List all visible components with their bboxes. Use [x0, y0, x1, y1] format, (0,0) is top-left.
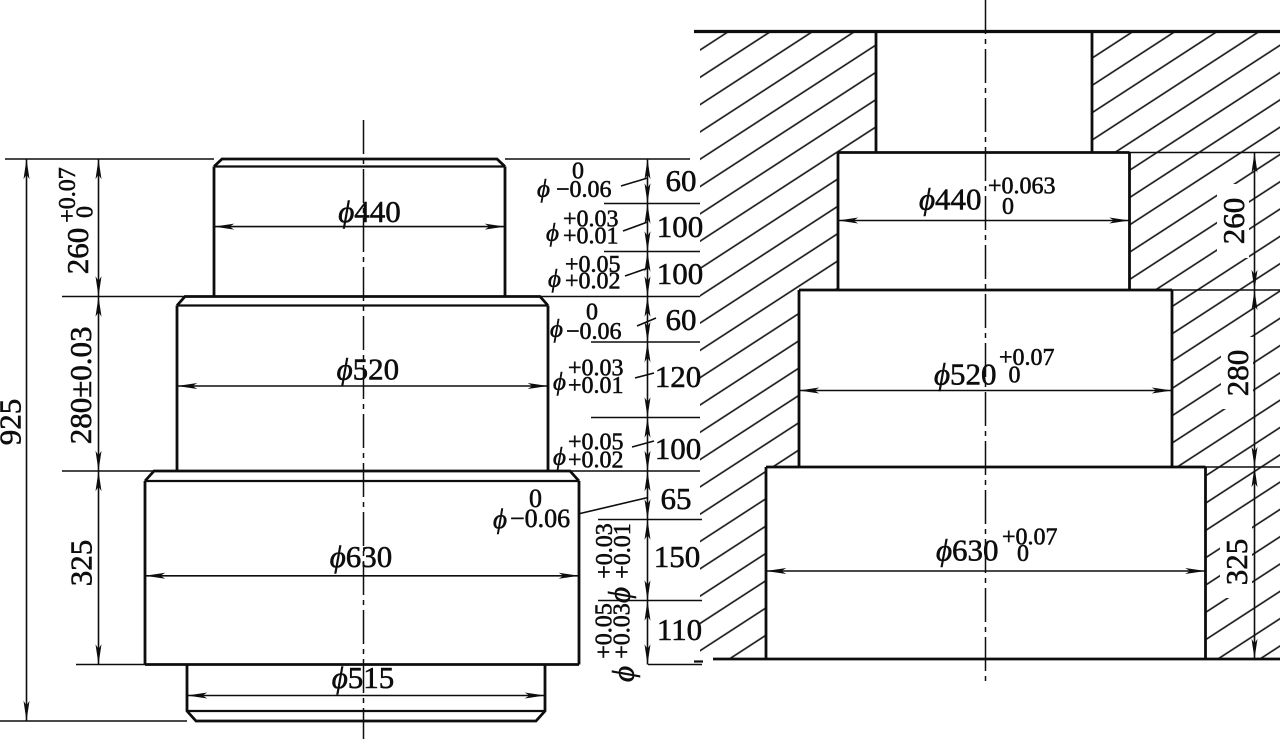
extension line at step1 shoulder to right column [1130, 152, 1280, 154]
svg-text:280±0.03: 280±0.03 [63, 327, 98, 445]
punch bottom spigot (phi515) outline with bottom chamfers [187, 665, 545, 722]
dimension line 260 (bore step1 depth) [1254, 153, 1256, 291]
dimension line 260 (step 1 height) [98, 159, 100, 297]
punch step 1 top face with chamfers (phi440) [214, 159, 505, 167]
svg-text:ϕ520: ϕ520 [337, 352, 400, 387]
tick line at step3 bottom, left [76, 664, 145, 666]
leader of label 3 [625, 268, 648, 276]
svg-text:ϕ440: ϕ440 [338, 194, 401, 229]
svg-text:325: 325 [1219, 539, 1254, 586]
dimension text phi630 +0.07/0 [936, 525, 1058, 568]
label phi +0.03/+0.01 (100 band of step1) [546, 207, 619, 250]
dimension line phi515 (bottom spigot) [187, 695, 545, 697]
chamfer tangent line phi440 [214, 165, 505, 167]
bore shoulder at step2 (phi520 seat top) [799, 289, 1172, 292]
chamfer tangent line phi515 [187, 710, 545, 712]
dimension line phi440 (left view) [214, 226, 505, 228]
svg-text:ϕ: ϕ [553, 369, 566, 396]
svg-text:60: 60 [666, 163, 697, 198]
svg-text:−0.06: −0.06 [556, 177, 612, 203]
extension line, top face level (right of punch) [505, 158, 690, 160]
bore walls phi440 step [838, 153, 1130, 291]
rotated label phi +0.03/+0.01 (150 band of step3) [592, 523, 637, 603]
tick line at step2/step3 shoulder, left [62, 470, 154, 472]
bore shoulder at step1 (phi440 seat top) [838, 151, 1130, 154]
white halo behind 325 text [1220, 526, 1252, 598]
dimension line 280 (step 2 height) [98, 297, 100, 472]
svg-text:150: 150 [654, 539, 701, 574]
svg-text:+0.01: +0.01 [610, 523, 636, 579]
die bottom face line [713, 658, 1280, 661]
svg-text:+0.01: +0.01 [568, 373, 624, 399]
dimension line 325 (step 3 height) [98, 471, 100, 665]
left view: stepped punch, front view [0, 120, 702, 739]
leader of label 5 [635, 373, 654, 378]
punch step 3 bottom face (phi630) [145, 663, 579, 666]
svg-text:260: 260 [60, 228, 95, 275]
svg-text:+0.07: +0.07 [1002, 525, 1058, 551]
dimension line phi630 (left view) [145, 575, 579, 577]
tick line at step2/step3 shoulder, right [570, 470, 700, 472]
section hatching right of bore (die material) [1092, 32, 1280, 660]
right view: die with stepped bore, sectional view [694, 0, 1280, 684]
leader of label 7 [578, 498, 648, 515]
tick line at step1/step2 shoulder, right [540, 296, 700, 298]
leader of label 1 [621, 178, 648, 186]
punch step 3 side edges (phi630) [145, 481, 579, 665]
punch step 2 side edges (phi520) [177, 306, 548, 472]
segment dimension line 100 [647, 204, 649, 252]
svg-text:ϕ520: ϕ520 [934, 357, 997, 392]
label phi 0/-0.06 (65 band of step3) [493, 484, 570, 534]
svg-text:+0.01: +0.01 [563, 224, 619, 250]
leader of label 2 [623, 222, 648, 231]
svg-text:+0.02: +0.02 [565, 269, 621, 295]
tick line of segment column at y=203.5 [604, 203, 700, 205]
dimension line 925 overall height [26, 159, 28, 721]
label phi +0.05/+0.02 (100 band of step1) [548, 252, 621, 295]
svg-text:65: 65 [661, 481, 692, 516]
svg-text:ϕ: ϕ [606, 666, 641, 682]
segment dimension line 100 [647, 418, 649, 472]
tick line of segment column at y=519.5 [598, 519, 702, 521]
svg-text:100: 100 [657, 256, 704, 291]
svg-text:280: 280 [1220, 350, 1255, 397]
segment dimension line 110 [647, 601, 649, 665]
label phi 0/-0.06 (60 band of step2) [550, 300, 622, 346]
svg-text:+0.063: +0.063 [988, 174, 1056, 200]
svg-text:ϕ: ϕ [550, 316, 563, 343]
segment dimension line 120 [647, 342, 649, 418]
rotated label phi +0.05/+0.03 (110 band of step3) [592, 603, 641, 682]
extension line at step3 shoulder to right column [1206, 466, 1280, 468]
svg-text:0: 0 [1009, 363, 1021, 389]
bore slot walls (top opening) [876, 32, 1092, 153]
dimension line 280 (bore step2 depth) [1254, 290, 1256, 467]
extension line at step2 shoulder to right column [1172, 289, 1280, 291]
svg-text:ϕ: ϕ [553, 444, 566, 471]
dimension line phi520 bore [799, 390, 1172, 392]
punch step 1 side edges (phi440) [214, 167, 505, 297]
segment dimension column, right of punch [493, 159, 703, 683]
extension line, top face level (left of punch) [5, 158, 214, 160]
svg-text:100: 100 [657, 209, 704, 244]
svg-text:−0.06: −0.06 [510, 504, 570, 533]
white halo behind 260 text [1217, 184, 1249, 258]
label phi +0.03/+0.01 (120 band of step2) [553, 356, 624, 400]
dimension line 325 (bore step3 depth) [1254, 467, 1256, 659]
dimension line phi520 (left view) [177, 385, 548, 387]
svg-text:60: 60 [666, 302, 697, 337]
svg-text:−0.06: −0.06 [566, 319, 622, 345]
dimension line phi440 bore [838, 220, 1130, 222]
svg-text:110: 110 [657, 612, 702, 647]
short dash at left end of die bottom line [694, 660, 703, 662]
svg-text:ϕ: ϕ [493, 504, 507, 534]
leader of label 4 [637, 318, 656, 326]
svg-text:ϕ630: ϕ630 [936, 533, 999, 568]
die top face line [694, 30, 1280, 33]
svg-text:ϕ: ϕ [546, 220, 559, 247]
svg-text:ϕ440: ϕ440 [919, 182, 982, 217]
svg-text:ϕ515: ϕ515 [332, 660, 395, 695]
svg-text:100: 100 [655, 431, 702, 466]
tick line of segment column at y=251.5 [604, 251, 700, 253]
segment dimension line 60 [647, 159, 649, 204]
white halo behind 280 text [1221, 337, 1253, 409]
svg-text:0: 0 [1017, 541, 1029, 567]
svg-text:ϕ: ϕ [537, 176, 550, 203]
leader of label 6 [632, 441, 654, 447]
dimension line phi630 bore [766, 570, 1206, 572]
tick line of segment column at y=600.5 [598, 600, 702, 602]
dimension text phi440 +0.063/0 [919, 174, 1056, 221]
segment dimension line 60 [647, 297, 649, 343]
dimension text phi520 +0.07/0 [934, 345, 1055, 392]
svg-text:ϕ: ϕ [602, 587, 637, 603]
chamfer tangent line phi630 [145, 480, 579, 482]
segment dimension line 150 [647, 520, 649, 601]
svg-text:0: 0 [1002, 194, 1014, 220]
section hatching left of bore (die material) [700, 32, 876, 660]
svg-text:120: 120 [655, 359, 702, 394]
segment dimension line 100 [647, 252, 649, 297]
label phi 0/-0.06 (60 band of step1) [537, 159, 612, 204]
bore walls phi520 step [799, 290, 1172, 467]
segment dimension line 65 [647, 471, 649, 520]
svg-text:+0.02: +0.02 [568, 448, 624, 474]
tick line of segment column at y=417.5 [591, 417, 700, 419]
svg-text:ϕ630: ϕ630 [330, 539, 393, 574]
centerline (right view, vertical axis) [985, 0, 987, 684]
centerline (left view, vertical axis) [363, 120, 365, 739]
extension line at punch bottom, left [0, 720, 187, 722]
bore shoulder at step3 (phi630 seat top) [766, 466, 1206, 469]
tick line of segment column at y=342 [591, 341, 700, 343]
svg-text:0: 0 [73, 206, 99, 218]
label phi +0.05/+0.02 (100 band of step2) [553, 430, 624, 474]
svg-text:260: 260 [1216, 198, 1251, 245]
svg-text:+0.03: +0.03 [610, 603, 636, 659]
svg-text:+0.07: +0.07 [999, 345, 1055, 371]
svg-text:925: 925 [0, 399, 28, 446]
chamfer tangent line phi520 [177, 304, 548, 306]
bore walls phi630 step [766, 467, 1206, 659]
tick line at step3 bottom, right [648, 664, 702, 666]
punch step 2 top face with chamfers (phi520) [177, 297, 548, 306]
tick line at step1/step2 shoulder, left [62, 296, 185, 298]
svg-text:ϕ: ϕ [548, 266, 561, 293]
punch step 3 top face with chamfers (phi630) [145, 471, 579, 481]
svg-text:325: 325 [64, 540, 99, 587]
